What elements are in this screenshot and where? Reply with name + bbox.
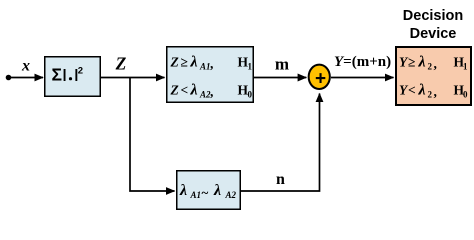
- label: right bar of |.|: [75, 69, 77, 81]
- label: Z >= lambda_A1, H1: [170, 54, 253, 100]
- svg-text:,: ,: [210, 84, 213, 99]
- block: first threshold comparator: [167, 47, 254, 103]
- svg-text:Z: Z: [170, 55, 179, 70]
- svg-text:λ: λ: [418, 82, 426, 99]
- svg-text:Decision: Decision: [403, 8, 463, 24]
- wire: m line from comparator to adder: [253, 77, 306, 79]
- svg-text:,: ,: [434, 56, 437, 71]
- svg-text:Y=(m+n): Y=(m+n): [334, 54, 391, 70]
- svg-text:λ: λ: [213, 182, 221, 199]
- svg-text:<: <: [181, 83, 189, 98]
- svg-text:1: 1: [463, 62, 468, 72]
- wire: x input arrow into summer block: [9, 77, 44, 79]
- svg-text:Z: Z: [170, 83, 179, 98]
- svg-text:,: ,: [434, 84, 437, 99]
- svg-text:0: 0: [248, 90, 253, 100]
- svg-text:A1: A1: [199, 62, 211, 72]
- wire: Z line from block1 to block2: [100, 77, 165, 79]
- svg-text:x: x: [21, 58, 30, 75]
- svg-text:A1: A1: [190, 190, 202, 200]
- block: lower threshold range: [177, 171, 241, 210]
- block: decision device: [396, 47, 471, 105]
- svg-text:+: +: [315, 69, 326, 90]
- wire: n line from lower block up into adder: [240, 94, 320, 192]
- svg-text:Device: Device: [410, 26, 457, 42]
- label: lambda_A1 ~ lambda_A2: [179, 182, 237, 200]
- svg-text:λ: λ: [418, 54, 426, 71]
- label: dot of |.|: [69, 77, 72, 80]
- label: left bar of |.|: [64, 69, 66, 81]
- svg-text:2: 2: [428, 62, 433, 72]
- svg-text:2: 2: [428, 90, 433, 100]
- svg-text:,: ,: [210, 56, 213, 71]
- wire: Y output from adder to decision device: [331, 77, 394, 79]
- svg-text:<: <: [408, 83, 416, 98]
- svg-text:~: ~: [202, 185, 209, 200]
- svg-text:λ: λ: [190, 54, 198, 71]
- svg-text:0: 0: [463, 90, 468, 100]
- svg-text:λ: λ: [190, 82, 198, 99]
- svg-text:λ: λ: [179, 182, 187, 199]
- svg-text:A2: A2: [225, 190, 237, 200]
- block: energy summer: [45, 57, 101, 97]
- svg-text:Σ: Σ: [52, 65, 63, 85]
- svg-text:m: m: [275, 55, 289, 74]
- svg-text:n: n: [276, 171, 285, 188]
- svg-text:≥: ≥: [181, 55, 188, 70]
- svg-text:Z: Z: [115, 54, 127, 74]
- block: adder circle: [309, 65, 330, 89]
- label: Y >= lambda_2, H1: [399, 54, 468, 100]
- wire: branch down from Z line to lower block: [130, 78, 175, 192]
- svg-text:1: 1: [248, 62, 253, 72]
- svg-text:≥: ≥: [408, 55, 415, 70]
- node: input dot: [6, 75, 12, 81]
- svg-text:2: 2: [78, 66, 83, 77]
